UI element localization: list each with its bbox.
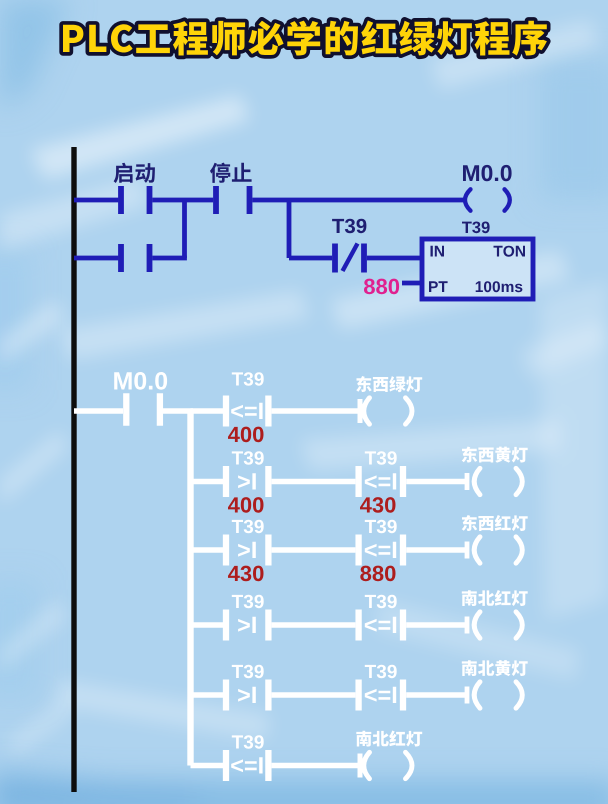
wire to coil branch 4 [406,617,467,634]
contact T39 <=I branch 5 [359,680,403,711]
wire seal-in to junction [152,256,187,261]
wire between contacts branch 5 [272,692,356,697]
wire between contacts branch 3 [272,547,356,552]
contact T39 >I branch 2 [226,466,268,497]
label T39 branch 1 first [232,372,264,386]
value 430 branch 2 [360,497,396,513]
contact T39 NC [335,244,364,273]
wire M0.0 to trunk [163,408,193,413]
contact 启动 NO [121,186,150,214]
wire to coil branch 2 [406,473,467,490]
label 南北红灯 [356,731,422,747]
wire rail to contact 启动 [74,198,118,203]
wire rail to contact M0.0 [74,408,123,413]
timer T39 TON box [422,239,533,299]
wire to coil branch 1 [272,399,360,423]
wire T39 to timer IN [367,256,421,261]
label T39 branch 3 second [365,520,397,534]
label 启动 [114,163,155,183]
pin PT [429,281,448,292]
wire trunk to branch 6 contact [191,763,224,768]
label M0.0 [463,165,512,181]
wire PT input [402,281,421,286]
contact T39 <=I branch 4 [359,610,403,641]
label 东西绿灯 [356,376,422,392]
junction wire down to timer branch [287,200,292,258]
label 南北黄灯 [462,660,528,676]
coil 南北黄灯 branch 5 [474,682,522,708]
label T39 branch 5 second [365,665,397,679]
wire between contacts branch 4 [272,622,356,627]
value 430 branch 3 [228,566,264,582]
contact T39 <=I branch 1 [226,396,268,427]
wire to coil branch 3 [406,542,467,559]
label T39 branch 4 first [232,595,264,609]
contact seal-in NO [121,244,150,272]
wire trunk to branch 5 contact [191,692,224,697]
coil 东西红灯 branch 3 [474,537,522,563]
label T39 branch 6 first [232,735,264,749]
left power rail [71,147,76,792]
coil 南北红灯 branch 6 [364,752,412,778]
value 400 branch 1 [228,427,264,443]
value 100ms [476,281,523,292]
contact T39 <=I branch 6 [226,750,268,781]
label T39 (NC contact) [332,219,366,234]
wire trunk to branch 4 contact [191,622,224,627]
coil 东西绿灯 branch 1 [364,398,412,424]
coil 东西黄灯 branch 2 [474,468,522,494]
label T39 branch 5 first [232,665,264,679]
wire 启动 to 停止 [152,198,213,203]
contact 停止 [216,186,250,214]
wire junction to contact T39 [289,256,332,261]
wire trunk to branch 2 contact [191,479,224,484]
label M0.0 (network 2) [114,372,167,390]
coil 南北红灯 branch 4 [474,612,522,638]
contact T39 >I branch 4 [226,610,268,641]
contact T39 >I branch 3 [226,535,268,566]
junction wire down to seal-in branch [182,200,187,258]
branch trunk wire [187,411,193,766]
pin IN [431,246,445,257]
wire 停止 to coil M0.0 [252,198,464,203]
value 400 branch 2 [228,497,264,513]
wire trunk to branch 3 contact [191,547,224,552]
value 880 (PT preset) [364,279,399,295]
title: PLC工程师必学的红绿灯程序 [63,21,547,56]
value 880 branch 3 [360,566,395,582]
contact T39 <=I branch 2 [359,466,403,497]
wire to coil branch 5 [406,687,467,704]
label T39 branch 3 first [232,520,264,534]
contact M0.0 NO [126,393,160,426]
label 南北红灯 [462,590,528,606]
wire between contacts branch 2 [272,479,356,484]
label T39 (timer) [462,222,490,234]
wire trunk to branch 1 contact [191,408,224,413]
coil M0.0 [465,189,510,210]
label T39 branch 2 second [365,451,397,465]
label 停止 [210,163,252,183]
contact T39 >I branch 5 [226,680,268,711]
label TON [494,246,526,257]
label 东西红灯 [462,515,528,531]
label T39 branch 4 second [365,595,397,609]
label T39 branch 2 first [232,451,264,465]
wire to coil branch 6 [272,754,360,778]
contact T39 <=I branch 3 [359,535,403,566]
wire rail to seal-in contact [74,256,118,261]
label 东西黄灯 [462,447,528,463]
